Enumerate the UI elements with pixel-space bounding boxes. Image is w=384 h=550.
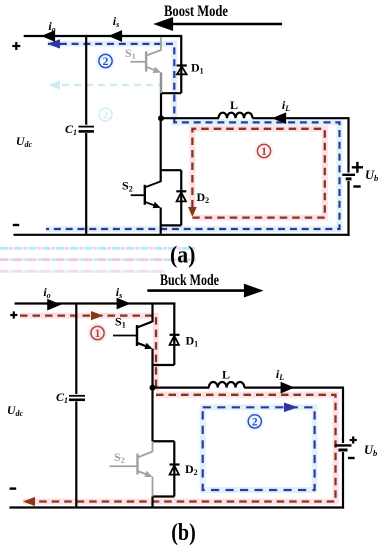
svg-text:(b): (b) [171,520,196,546]
svg-text:2: 2 [103,110,109,122]
svg-text:2: 2 [103,56,109,68]
svg-text:1: 1 [95,328,101,340]
svg-text:Boost Mode: Boost Mode [164,3,228,20]
svg-text:Buck Mode: Buck Mode [160,272,219,289]
svg-text:L: L [230,98,238,112]
svg-text:2: 2 [252,417,258,429]
svg-text:1: 1 [261,146,267,158]
svg-text:(a): (a) [170,243,196,269]
svg-text:L: L [222,368,230,382]
